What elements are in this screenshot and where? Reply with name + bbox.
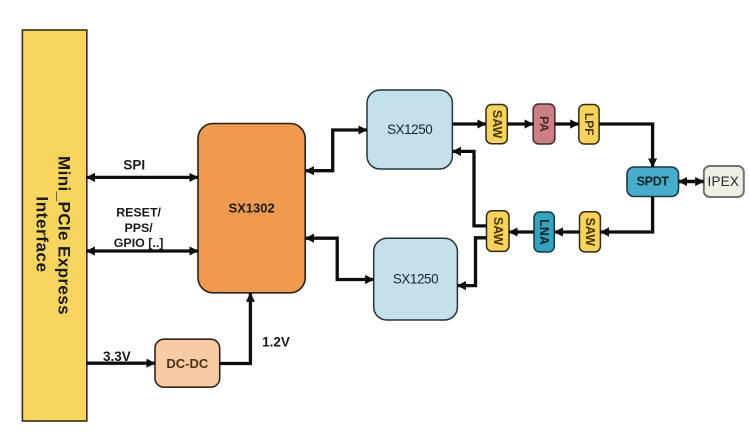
svg-text:Interface: Interface [33, 196, 52, 272]
block Mini_PCIe Express Interface [22, 30, 86, 421]
block SX1250 top [367, 90, 452, 169]
label RESET/ PPS/ GPIO[..] [114, 206, 164, 250]
svg-text:PA: PA [537, 116, 551, 132]
wire LPF to SPDT [599, 124, 653, 167]
wire RESET/PPS/GPIO bus [86, 249, 198, 252]
svg-text:SPI: SPI [123, 158, 145, 173]
wire SPDT to IPEX [679, 180, 704, 183]
svg-text:SX1302: SX1302 [228, 201, 274, 216]
svg-text:SAW: SAW [491, 217, 505, 246]
wire SAW top to PA [507, 122, 533, 125]
svg-text:GPIO [..]: GPIO [..] [114, 236, 164, 250]
svg-text:LNA: LNA [537, 219, 551, 245]
svg-text:SX1250: SX1250 [387, 122, 432, 137]
wire SAW right to LNA [554, 230, 579, 233]
wire SPDT to SAW right [600, 197, 652, 233]
svg-text:IPEX: IPEX [708, 174, 740, 189]
block SAW right [580, 212, 601, 252]
svg-text:SX1250: SX1250 [393, 272, 438, 287]
block SAW middle [487, 211, 510, 252]
wire SX1302 to SX1250 bottom [305, 238, 373, 279]
svg-text:SAW: SAW [490, 110, 504, 139]
wire LNA to SAW middle [509, 230, 534, 233]
wire SX1250 top to SAW top [452, 122, 486, 125]
block LNA [534, 212, 554, 252]
block SX1250 bottom [374, 238, 458, 320]
wire SAW middle to SX1250 bottom [457, 238, 486, 286]
wire 3.3V supply [86, 362, 155, 365]
block LPF [579, 105, 599, 145]
svg-text:SPDT: SPDT [637, 175, 670, 189]
svg-text:SAW: SAW [583, 218, 597, 247]
svg-text:LPF: LPF [582, 113, 596, 136]
svg-text:Mini_PCIe Express: Mini_PCIe Express [55, 156, 74, 315]
wire SX1302 to SX1250 top [305, 130, 367, 171]
block SX1302 [198, 124, 305, 293]
block PA [533, 104, 555, 144]
wire PA to LPF [555, 122, 579, 125]
wire SAW middle to SX1250 top [452, 151, 486, 226]
block SPDT [627, 167, 679, 197]
svg-text:1.2V: 1.2V [262, 335, 290, 350]
block SAW top [486, 105, 507, 144]
block DC-DC [155, 339, 220, 387]
svg-text:PPS/: PPS/ [124, 221, 153, 235]
svg-text:3.3V: 3.3V [103, 349, 131, 364]
svg-text:RESET/: RESET/ [116, 206, 161, 220]
wire 1.2V supply [220, 293, 251, 363]
svg-text:DC-DC: DC-DC [166, 356, 208, 371]
block IPEX [704, 166, 744, 197]
wire SPI bus [86, 176, 198, 179]
